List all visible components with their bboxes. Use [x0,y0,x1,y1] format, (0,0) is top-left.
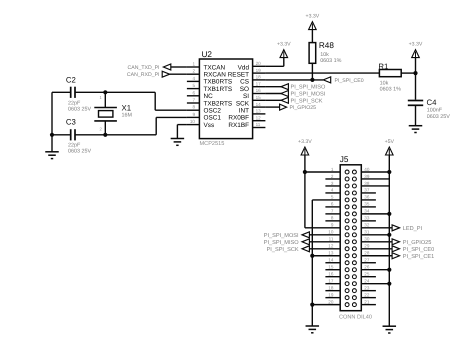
svg-text:34: 34 [364,209,370,214]
svg-text:8: 8 [331,216,334,221]
svg-text:OSC2: OSC2 [204,108,222,115]
svg-text:3: 3 [331,181,334,186]
svg-text:35: 35 [364,202,370,207]
svg-text:26: 26 [364,265,370,270]
svg-text:OSC1: OSC1 [204,115,222,122]
svg-text:Vdd: Vdd [238,64,250,71]
svg-text:R48: R48 [319,41,334,50]
svg-text:C3: C3 [66,118,76,127]
svg-text:TXB2RTS: TXB2RTS [204,100,233,107]
svg-text:37: 37 [364,188,370,193]
svg-text:PI_SPI_MOSI: PI_SPI_MOSI [291,92,326,98]
svg-text:20: 20 [256,61,262,66]
svg-text:LED_PI: LED_PI [403,226,423,232]
svg-text:10: 10 [328,230,334,235]
svg-text:6: 6 [331,202,334,207]
svg-text:CAN_RXD_PI: CAN_RXD_PI [127,72,160,78]
svg-text:4: 4 [192,76,195,81]
svg-text:27: 27 [364,258,370,263]
svg-text:PI_SPI_MOSI: PI_SPI_MOSI [264,233,299,239]
svg-text:1: 1 [331,167,334,172]
svg-text:PI_SPI_SCK: PI_SPI_SCK [267,247,299,253]
svg-text:+3.3V: +3.3V [277,42,291,48]
svg-text:PI_SPI_CE0: PI_SPI_CE0 [403,247,434,253]
svg-text:17: 17 [328,278,334,283]
svg-text:C2: C2 [66,75,76,84]
svg-text:12: 12 [256,115,262,120]
svg-text:INT: INT [239,108,249,115]
svg-text:2: 2 [331,174,334,179]
svg-text:18: 18 [256,75,262,80]
svg-text:22: 22 [364,292,370,297]
svg-text:PI_GPIO25: PI_GPIO25 [403,240,432,246]
svg-text:RXCAN: RXCAN [204,72,227,79]
svg-text:SCK: SCK [236,100,250,107]
svg-text:16: 16 [328,272,334,277]
svg-text:PI_SPI_MISO: PI_SPI_MISO [291,85,326,91]
svg-text:0603 25V: 0603 25V [68,106,91,112]
svg-text:+3.3V: +3.3V [306,14,320,20]
svg-text:SO: SO [240,86,249,93]
svg-text:21: 21 [364,299,370,304]
svg-text:RX1BF: RX1BF [228,122,249,129]
svg-text:5: 5 [331,195,334,200]
svg-text:33: 33 [364,216,370,221]
svg-text:36: 36 [364,195,370,200]
svg-text:22pF: 22pF [68,100,81,106]
svg-text:32: 32 [364,223,370,228]
svg-text:TXB0RTS: TXB0RTS [204,79,233,86]
svg-text:PI_GPIO25: PI_GPIO25 [290,105,317,111]
svg-text:14: 14 [256,102,262,107]
svg-text:MCP2515: MCP2515 [200,141,225,147]
svg-text:C4: C4 [427,98,438,107]
svg-text:NC: NC [204,93,214,100]
svg-text:Vss: Vss [204,122,215,129]
svg-text:4: 4 [331,188,334,193]
svg-text:10: 10 [190,119,196,124]
svg-text:+5V: +5V [385,139,395,145]
svg-text:14: 14 [328,258,334,263]
svg-text:28: 28 [364,251,370,256]
svg-text:0603 1%: 0603 1% [320,58,341,64]
svg-text:25: 25 [364,272,370,277]
svg-text:100nF: 100nF [427,108,443,114]
svg-text:8: 8 [192,105,195,110]
svg-text:16M: 16M [122,113,133,119]
svg-text:1: 1 [192,62,195,67]
svg-text:6: 6 [192,90,195,95]
svg-text:7: 7 [192,98,195,103]
svg-text:CONN DIL40: CONN DIL40 [339,315,372,321]
svg-text:+3.3V: +3.3V [298,139,312,145]
svg-text:9: 9 [192,112,195,117]
svg-text:13: 13 [256,109,262,114]
svg-text:5: 5 [192,83,195,88]
svg-text:18: 18 [328,285,334,290]
svg-text:RX0BF: RX0BF [228,115,249,122]
svg-text:PI_SPI_MISO: PI_SPI_MISO [264,240,299,246]
svg-text:11: 11 [329,237,334,242]
svg-text:J5: J5 [340,155,349,164]
svg-text:7: 7 [331,209,334,214]
svg-text:23: 23 [364,285,370,290]
svg-text:38: 38 [364,181,370,186]
svg-text:TXCAN: TXCAN [204,64,226,71]
svg-text:0603 25V: 0603 25V [68,149,91,155]
svg-text:15: 15 [256,95,262,100]
svg-text:13: 13 [328,251,334,256]
svg-text:+3.3V: +3.3V [409,42,423,48]
svg-text:CAN_TXD_PI: CAN_TXD_PI [128,65,160,71]
svg-text:20: 20 [328,299,334,304]
svg-text:17: 17 [256,81,262,86]
svg-text:15: 15 [328,265,334,270]
svg-text:10k: 10k [380,80,389,86]
svg-text:SI: SI [243,93,249,100]
svg-text:19: 19 [256,68,262,73]
svg-text:22pF: 22pF [68,142,81,148]
svg-text:11: 11 [256,122,261,127]
svg-text:RESET: RESET [228,72,249,79]
svg-text:16: 16 [256,88,262,93]
svg-text:10k: 10k [320,52,329,58]
svg-text:9: 9 [331,223,334,228]
svg-text:40: 40 [364,167,370,172]
svg-text:R1: R1 [378,62,388,71]
svg-text:PI_SPI_CE1: PI_SPI_CE1 [403,254,434,260]
svg-text:PI_SPI_SCK: PI_SPI_SCK [291,98,323,104]
svg-text:31: 31 [364,230,370,235]
svg-text:2: 2 [192,69,195,74]
svg-text:X1: X1 [122,103,132,112]
svg-text:24: 24 [364,278,370,283]
svg-text:29: 29 [364,244,370,249]
svg-text:19: 19 [328,292,334,297]
svg-text:CS: CS [240,79,249,86]
svg-text:PI_SPI_CE0: PI_SPI_CE0 [335,78,364,84]
svg-text:0603 1%: 0603 1% [380,87,401,93]
svg-text:U2: U2 [202,50,213,59]
svg-text:39: 39 [364,174,370,179]
svg-text:12: 12 [328,244,334,249]
svg-text:30: 30 [364,237,370,242]
svg-text:0603 25V: 0603 25V [427,114,450,120]
svg-text:TXB1RTS: TXB1RTS [204,86,233,93]
